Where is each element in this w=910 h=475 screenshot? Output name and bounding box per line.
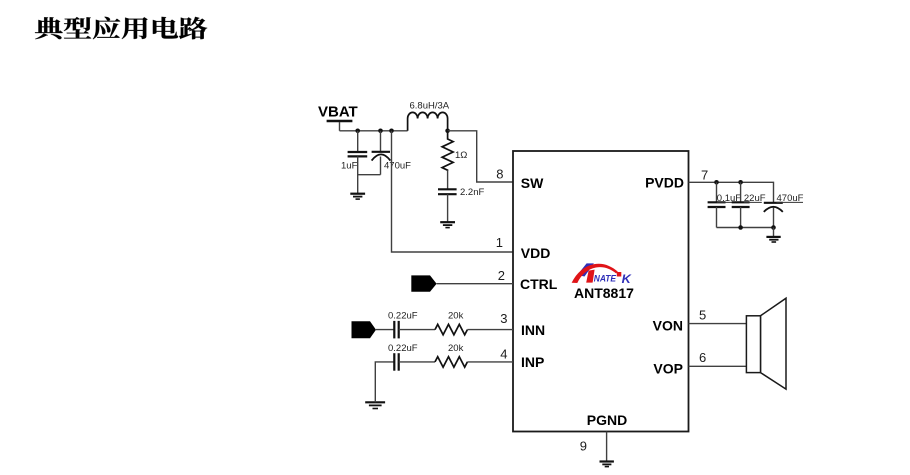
- wire VON to speaker: [689, 323, 747, 325]
- speaker LS1 driver: [746, 316, 760, 373]
- svg-text:2: 2: [498, 268, 505, 283]
- ground G4: [766, 228, 780, 243]
- title 典型应用电路: [35, 17, 207, 39]
- svg-text:20k: 20k: [448, 311, 464, 322]
- wire PVDD rail: [689, 182, 774, 203]
- wire R3 to pin 4: [467, 361, 513, 363]
- ground G2: [440, 222, 455, 227]
- svg-text:SW: SW: [521, 175, 544, 191]
- svg-text:NATE: NATE: [594, 274, 617, 284]
- junction dot H: [771, 225, 776, 230]
- ground G1: [350, 194, 365, 199]
- junction dot G: [738, 225, 743, 230]
- svg-text:CTRL: CTRL: [520, 276, 558, 292]
- input tag INN: [352, 321, 377, 338]
- svg-text:PGND: PGND: [587, 412, 627, 428]
- junction dot B: [378, 129, 383, 134]
- junction dot A: [355, 129, 360, 134]
- svg-text:0.22uF: 0.22uF: [388, 311, 418, 322]
- wire PGND to ground: [606, 432, 608, 462]
- svg-text:1: 1: [496, 235, 503, 250]
- wire VBAT stub: [339, 122, 341, 131]
- svg-text:PVDD: PVDD: [645, 174, 684, 190]
- svg-text:VOP: VOP: [653, 360, 683, 376]
- svg-text:INP: INP: [521, 354, 544, 370]
- logo ANATEK red swoosh: [572, 264, 618, 283]
- resistor R3 20k: [435, 343, 467, 367]
- wire ground to C5: [375, 362, 394, 402]
- capacitor C8 470uF electrolytic: [764, 193, 804, 228]
- capacitor C1 1uF: [341, 131, 367, 194]
- svg-text:0.22uF: 0.22uF: [388, 343, 418, 354]
- svg-text:5: 5: [699, 307, 706, 322]
- wire C5 to R3: [399, 361, 435, 363]
- capacitor C3 2.2nF: [438, 170, 484, 222]
- inductor L1 6.8uH/3A: [408, 101, 450, 131]
- resistor R2 20k: [435, 311, 467, 335]
- logo ANATEK blue A bar: [577, 263, 594, 276]
- wire VDD net (rail to pin 1): [392, 131, 514, 252]
- svg-text:VDD: VDD: [521, 245, 551, 261]
- svg-text:9: 9: [580, 438, 587, 453]
- logo ANATEK red right leg: [586, 270, 594, 283]
- capacitor C7 22uF: [732, 182, 766, 227]
- capacitor C2 470uF electrolytic: [372, 131, 412, 175]
- resistor R1 1Ω: [442, 131, 467, 171]
- wire C2 bottom to C1 lead: [358, 174, 381, 176]
- ground G5: [600, 462, 614, 467]
- svg-text:VON: VON: [653, 317, 683, 333]
- logo ANATEK red dot on K: [617, 272, 622, 277]
- svg-text:INN: INN: [521, 322, 545, 338]
- speaker LS1 cone: [761, 298, 787, 389]
- VBAT terminal bar: [327, 120, 353, 123]
- wire main rail: [340, 130, 408, 132]
- svg-text:6: 6: [699, 350, 706, 365]
- wire INN tag to C4: [376, 329, 394, 331]
- input tag CTRL: [411, 275, 436, 291]
- capacitor C5 0.22uF: [388, 343, 418, 371]
- svg-text:8: 8: [496, 166, 503, 181]
- junction dot C: [389, 129, 394, 134]
- svg-text:7: 7: [701, 168, 708, 183]
- wire CTRL: [437, 283, 513, 285]
- wire VOP to speaker: [689, 365, 747, 367]
- svg-text:470uF: 470uF: [384, 161, 411, 172]
- junction dot E: [714, 180, 719, 185]
- svg-text:3: 3: [500, 311, 507, 326]
- capacitor C6 0.1uF: [708, 182, 742, 227]
- ground G3 (INP): [365, 402, 385, 408]
- wire C4 to R2: [399, 329, 435, 331]
- junction dot D (SW node): [445, 129, 450, 134]
- svg-text:2.2nF: 2.2nF: [460, 187, 484, 198]
- svg-text:6.8uH/3A: 6.8uH/3A: [410, 101, 450, 112]
- wire PVDD bottom rail: [717, 227, 774, 229]
- svg-text:20k: 20k: [448, 343, 464, 354]
- svg-text:4: 4: [500, 346, 507, 361]
- wire R2 to pin 3: [467, 329, 513, 331]
- capacitor C4 0.22uF: [388, 311, 418, 339]
- svg-text:VBAT: VBAT: [318, 104, 358, 121]
- wire SW node to pin 8: [448, 131, 513, 182]
- IC U1 ANT8817 body: [513, 151, 689, 432]
- svg-text:1Ω: 1Ω: [455, 150, 467, 161]
- svg-text:1uF: 1uF: [341, 161, 358, 172]
- junction dot F: [738, 180, 743, 185]
- svg-text:ANT8817: ANT8817: [574, 285, 634, 301]
